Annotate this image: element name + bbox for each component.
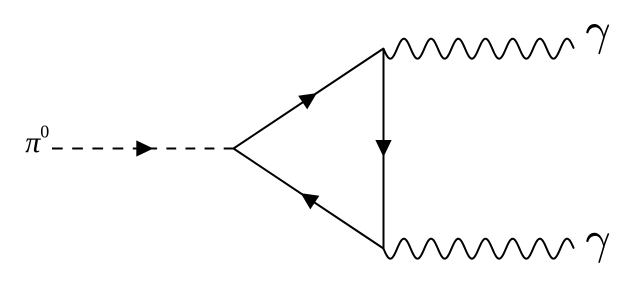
wire: pion dashed propagator (left half) [52, 148, 145, 150]
wire: quark line left vertex to top vertex [234, 49, 384, 149]
gamma label bottom [587, 233, 609, 262]
wire: top photon wavy line [384, 39, 574, 59]
wire: quark line bottom vertex to left vertex [234, 149, 384, 249]
arrow on lower quark line [301, 193, 320, 209]
svg-text:0: 0 [40, 122, 49, 142]
arrow on upper quark line [298, 93, 317, 109]
svg-text:π: π [25, 126, 41, 159]
wire: quark line top vertex to bottom vertex [383, 49, 385, 250]
pion label pi^0 [25, 122, 49, 160]
arrow on vertical quark line [375, 140, 391, 157]
arrow on pion propagator [136, 140, 153, 156]
wire: bottom photon wavy line [384, 239, 574, 259]
wire: pion dashed propagator (right half) [145, 148, 234, 150]
gamma label top [587, 24, 609, 53]
